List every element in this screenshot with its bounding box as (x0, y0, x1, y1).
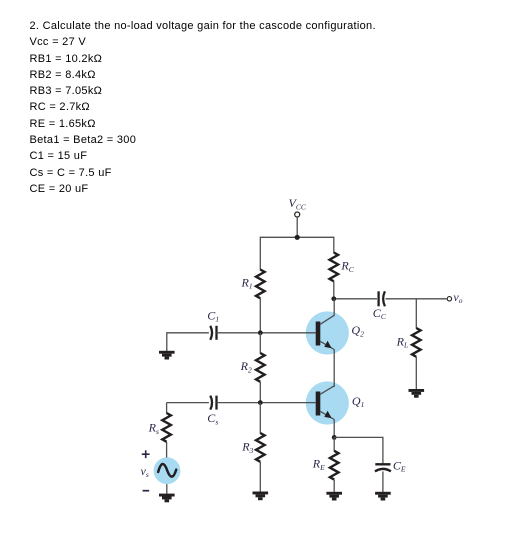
wire C1 left with ground stem (167, 333, 209, 351)
wire R2 bottom (259, 382, 261, 403)
resistor RE (330, 451, 339, 480)
svg-text:R3: R3 (241, 440, 253, 455)
svg-text:RL: RL (396, 334, 409, 349)
svg-text:VCC: VCC (289, 196, 307, 211)
wire output line right of Cc (386, 298, 447, 300)
wire CE bottom (382, 471, 384, 492)
svg-text:Q2: Q2 (351, 323, 364, 338)
ground for RE (326, 492, 342, 501)
wire RC top (333, 237, 335, 253)
svg-text:Cs: Cs (207, 411, 218, 426)
resistor R2 (256, 353, 265, 382)
node Vcc terminal (295, 212, 300, 237)
ground for CE (375, 492, 391, 501)
resistor Rs (162, 413, 171, 442)
wire RE bottom (333, 480, 335, 492)
node R2 R3 junction (258, 400, 263, 405)
svg-text:R2: R2 (240, 359, 252, 374)
svg-text:Rs: Rs (148, 421, 159, 436)
wire C1 to Q2 base (217, 332, 316, 334)
capacitor C1 (210, 326, 216, 340)
transistor Q2 (316, 315, 335, 349)
wire output line left of Cc (334, 298, 377, 300)
capacitor CE (375, 464, 391, 471)
svg-text:vo: vo (453, 290, 462, 305)
transistor Q1 (316, 386, 335, 420)
wire RC bottom (333, 281, 335, 299)
node collector junction dot (331, 296, 336, 301)
wire Q2 emitter to Q1 collector (333, 349, 335, 387)
resistor RL (412, 328, 421, 357)
capacitor Cs (210, 396, 216, 410)
node vo terminal (447, 297, 451, 301)
svg-text:Q1: Q1 (352, 394, 364, 409)
ground for RL (409, 389, 425, 398)
node R1 R2 junction (258, 330, 263, 335)
transistor Q2 highlight circle (306, 311, 349, 354)
svg-text:RC: RC (340, 259, 354, 274)
label minus (143, 490, 150, 492)
wire RL top (415, 299, 417, 329)
capacitor Cc (379, 291, 385, 306)
wire RL bottom (415, 357, 417, 389)
resistor RC (330, 253, 339, 282)
svg-text:R1: R1 (241, 275, 253, 290)
svg-text:C1: C1 (207, 308, 219, 323)
node Q1 emitter junction (332, 435, 337, 440)
svg-text:CE: CE (393, 458, 406, 473)
wire Cs left (167, 402, 209, 404)
wire R1 bottom (259, 298, 261, 333)
wire source to ground (166, 484, 168, 494)
ground for R3 (253, 492, 269, 501)
source vs sine (158, 464, 176, 477)
wire Q2 collector (333, 299, 335, 316)
svg-text:CC: CC (373, 306, 387, 321)
source vs highlight circle (154, 457, 181, 484)
node junction dot on rail (295, 235, 300, 240)
wire R3 top (259, 403, 261, 434)
svg-text:RE: RE (312, 457, 325, 472)
wire Rs to source (166, 442, 168, 458)
ground for C1 (159, 351, 175, 360)
wire top rail (260, 236, 334, 238)
wire RE top (333, 437, 335, 451)
transistor Q1 highlight circle (306, 381, 349, 424)
wire R1 top (259, 237, 261, 270)
resistor R1 (256, 270, 265, 299)
wire Cs to Q1 base (217, 402, 316, 404)
svg-text:vs: vs (141, 464, 149, 479)
wire R2 top (259, 333, 261, 354)
wire Q1 emitter down (333, 419, 335, 437)
ground for source (159, 494, 175, 503)
wire emitter node to CE (334, 437, 383, 463)
wire R3 bottom (259, 462, 261, 492)
label plus (142, 450, 150, 458)
resistor R3 (256, 433, 265, 462)
wire Rs top (166, 403, 168, 414)
